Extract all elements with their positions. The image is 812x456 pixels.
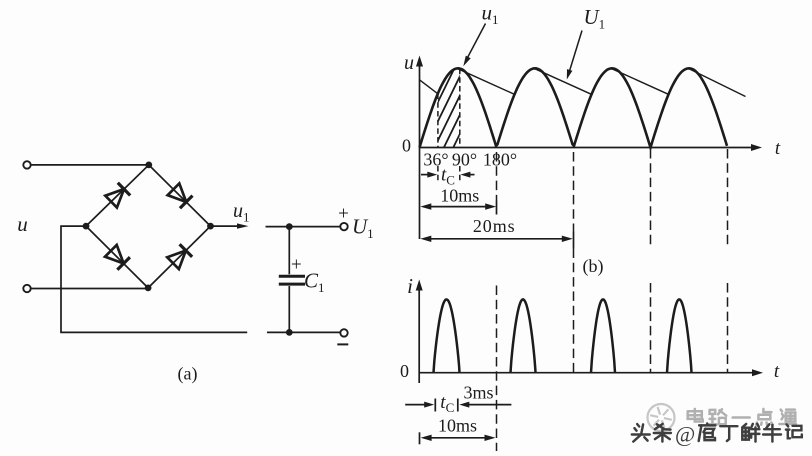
svg-text:t: t bbox=[775, 138, 781, 159]
svg-text:i: i bbox=[407, 274, 413, 298]
svg-text:U1: U1 bbox=[352, 215, 374, 242]
svg-text:t: t bbox=[774, 361, 780, 382]
svg-text:90°: 90° bbox=[452, 149, 477, 169]
svg-text:180°: 180° bbox=[483, 149, 517, 169]
svg-text:u: u bbox=[17, 212, 28, 236]
svg-text:U1: U1 bbox=[584, 5, 606, 32]
svg-text:20ms: 20ms bbox=[473, 216, 516, 236]
svg-text:+: + bbox=[338, 204, 349, 225]
svg-text:tC: tC bbox=[440, 392, 454, 415]
svg-text:C1: C1 bbox=[304, 269, 325, 296]
svg-text:u1: u1 bbox=[482, 1, 499, 28]
svg-text:(b): (b) bbox=[583, 256, 604, 277]
svg-text:0: 0 bbox=[402, 136, 411, 156]
svg-text:u: u bbox=[404, 52, 414, 74]
svg-text:0: 0 bbox=[400, 361, 409, 381]
svg-text:(a): (a) bbox=[178, 364, 198, 385]
svg-text:@: @ bbox=[675, 422, 695, 447]
svg-text:3ms: 3ms bbox=[463, 383, 493, 403]
svg-text:10ms: 10ms bbox=[438, 416, 477, 436]
svg-text:+: + bbox=[291, 255, 302, 276]
svg-text:u1: u1 bbox=[233, 200, 250, 225]
svg-text:10ms: 10ms bbox=[440, 185, 479, 205]
